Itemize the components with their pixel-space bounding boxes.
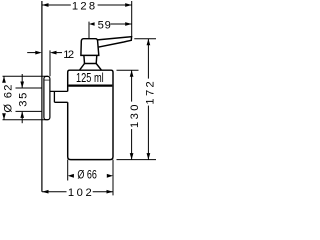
dimension 102 bbox=[42, 191, 113, 193]
extension line bottle top right bbox=[117, 69, 139, 71]
extension line pump axis bbox=[88, 22, 90, 39]
dimension 130 bbox=[131, 70, 133, 159]
dimension D66 bbox=[68, 174, 74, 178]
spout bbox=[98, 37, 132, 47]
dimension 172 bbox=[147, 39, 149, 160]
svg-text:12: 12 bbox=[63, 49, 74, 61]
wall plate bbox=[44, 76, 50, 119]
bottle shoulder bbox=[80, 64, 102, 71]
svg-text:35: 35 bbox=[17, 93, 29, 107]
extension line bottle right bottom bbox=[112, 160, 114, 196]
extension line plate top bbox=[3, 75, 49, 77]
dimension 59 bbox=[111, 23, 132, 25]
svg-text:125 ml: 125 ml bbox=[76, 72, 104, 86]
pump head bbox=[81, 39, 99, 56]
svg-text:102: 102 bbox=[68, 187, 92, 199]
extension line head top right bbox=[134, 38, 156, 40]
dimension 128 bbox=[42, 4, 132, 6]
bottle label line bbox=[68, 84, 112, 86]
dimension D62 bbox=[3, 76, 5, 120]
extension line bottle bottom right bbox=[117, 159, 157, 161]
extension line spout tip bbox=[131, 1, 133, 37]
svg-text:Ø 62: Ø 62 bbox=[2, 85, 14, 113]
extension line d35 bottom bbox=[16, 110, 43, 112]
extension line bottle left bottom bbox=[67, 160, 69, 181]
svg-text:172: 172 bbox=[145, 81, 156, 104]
svg-text:Ø 66: Ø 66 bbox=[77, 169, 97, 182]
svg-text:128: 128 bbox=[72, 1, 95, 13]
svg-text:59: 59 bbox=[98, 19, 111, 31]
pump collar bbox=[84, 55, 97, 63]
wall line bbox=[41, 1, 43, 192]
extension line d35 top bbox=[16, 87, 43, 89]
bottle body bbox=[68, 70, 113, 159]
extension line plate bottom bbox=[3, 119, 49, 121]
holder arm bbox=[50, 91, 68, 102]
dimension 12 bbox=[27, 52, 36, 54]
dimension 35 bbox=[21, 74, 23, 123]
svg-text:130: 130 bbox=[129, 105, 141, 129]
plate seam bbox=[44, 79, 49, 81]
extension line plate front bbox=[49, 50, 51, 76]
